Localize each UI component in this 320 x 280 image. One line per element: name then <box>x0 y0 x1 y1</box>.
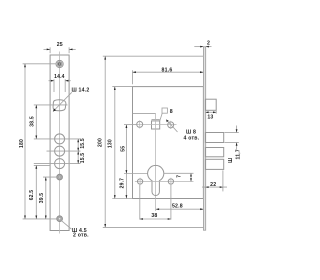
svg-text:8: 8 <box>170 109 173 115</box>
dim 15.5 x2 <box>77 138 86 163</box>
hatched hole lower <box>57 216 63 222</box>
ext body top (130) <box>112 86 132 88</box>
body outline <box>133 87 204 199</box>
dim 25 top <box>44 42 76 53</box>
svg-text:22: 22 <box>210 182 216 188</box>
svg-text:52.8: 52.8 <box>172 203 183 209</box>
ext line 62.5 top <box>34 164 50 166</box>
ext bottom (200) <box>103 226 204 228</box>
euro cylinder <box>148 165 164 195</box>
ext line follower top reference <box>133 112 156 114</box>
svg-text:81.6: 81.6 <box>162 67 173 73</box>
hatched hole upper <box>57 174 63 180</box>
dim 38 <box>140 213 171 220</box>
ext line top hole (180) <box>23 63 57 65</box>
faceplate outline <box>50 55 69 231</box>
dim 130 <box>108 87 116 199</box>
svg-text:7: 7 <box>177 175 183 178</box>
oval hole (Sh 14.2) <box>53 100 66 111</box>
dim 7 <box>164 173 194 181</box>
ext line hole3 center <box>34 163 81 165</box>
ext cylinder center (55/29.7) <box>124 173 148 175</box>
svg-text:200: 200 <box>98 138 104 147</box>
follower square <box>152 120 160 130</box>
dim 180 <box>19 64 26 219</box>
deadbolt 3 <box>205 159 223 169</box>
svg-text:180: 180 <box>19 139 25 148</box>
cylinder row centerline <box>135 181 194 183</box>
ext line hatched1 center <box>43 176 63 178</box>
hole row1 left <box>137 120 143 128</box>
dim 62.5 <box>29 165 37 219</box>
vertical centerline follower-cylinder <box>155 113 157 211</box>
svg-text:11,7: 11,7 <box>235 149 241 159</box>
svg-text:15.5: 15.5 <box>80 138 86 149</box>
hole row2 right <box>168 178 173 185</box>
ext top (200) <box>103 55 204 57</box>
svg-text:Ш: Ш <box>228 158 234 163</box>
svg-text:55: 55 <box>120 146 126 152</box>
latch bolt <box>205 99 216 110</box>
dim 200 <box>98 56 107 227</box>
dim 22 (bolt throw) <box>202 170 227 191</box>
dim 39.5 <box>39 177 47 219</box>
hole row2 left <box>138 178 143 185</box>
dim 55 <box>120 125 127 174</box>
svg-text:2 отв.: 2 отв. <box>73 233 89 239</box>
leader Sh 4.5 2 holes <box>61 220 89 239</box>
top screw hole <box>56 60 63 67</box>
svg-text:38.5: 38.5 <box>30 116 36 127</box>
three round holes <box>55 134 65 144</box>
dim 38.5 <box>30 105 38 139</box>
svg-text:Ш 14.2: Ш 14.2 <box>72 88 90 94</box>
svg-text:Ш 8: Ш 8 <box>186 129 196 135</box>
ext line oval center <box>34 104 68 106</box>
faceplate strip side <box>203 47 205 230</box>
leader Sh 8 4 holes <box>166 120 199 142</box>
ext body bottom (130) <box>112 198 132 200</box>
deadbolt 1 <box>205 133 223 143</box>
svg-text:38: 38 <box>151 213 157 219</box>
ext line bottom hole <box>23 218 57 220</box>
svg-text:4 отв.: 4 отв. <box>184 135 200 141</box>
svg-text:62.5: 62.5 <box>29 190 35 201</box>
ext line hole1 center <box>34 138 81 140</box>
ext hole row2 left down (38) <box>139 185 141 220</box>
svg-text:29.7: 29.7 <box>120 178 126 189</box>
faceplate vertical centerline <box>59 52 61 234</box>
dim 29.7 <box>120 174 128 199</box>
leader Sh 14.2 <box>53 88 89 112</box>
svg-text:15.5: 15.5 <box>80 153 86 164</box>
deadbolt 2 <box>205 148 223 157</box>
dim Sh 11,7 (bolt diameter) <box>225 126 242 163</box>
hole row1 right <box>168 121 174 129</box>
dim 14.4 <box>49 74 71 92</box>
svg-text:2: 2 <box>207 41 210 47</box>
dim 2 (strip thickness) <box>194 41 211 48</box>
svg-text:25: 25 <box>57 42 63 48</box>
svg-text:13: 13 <box>207 115 213 121</box>
row1 centerline <box>135 123 177 125</box>
dim 81.6 <box>133 67 204 84</box>
dim 52.8 <box>156 203 204 210</box>
svg-text:130: 130 <box>108 139 114 148</box>
ext hole row2 right down (38) <box>170 185 172 220</box>
ext line hole2 center <box>47 150 81 152</box>
dim 13 <box>205 111 216 121</box>
svg-text:39.5: 39.5 <box>39 193 45 204</box>
svg-text:14.4: 14.4 <box>54 74 65 80</box>
ext follower center (55) <box>124 124 136 126</box>
callout square 8 <box>160 108 173 121</box>
